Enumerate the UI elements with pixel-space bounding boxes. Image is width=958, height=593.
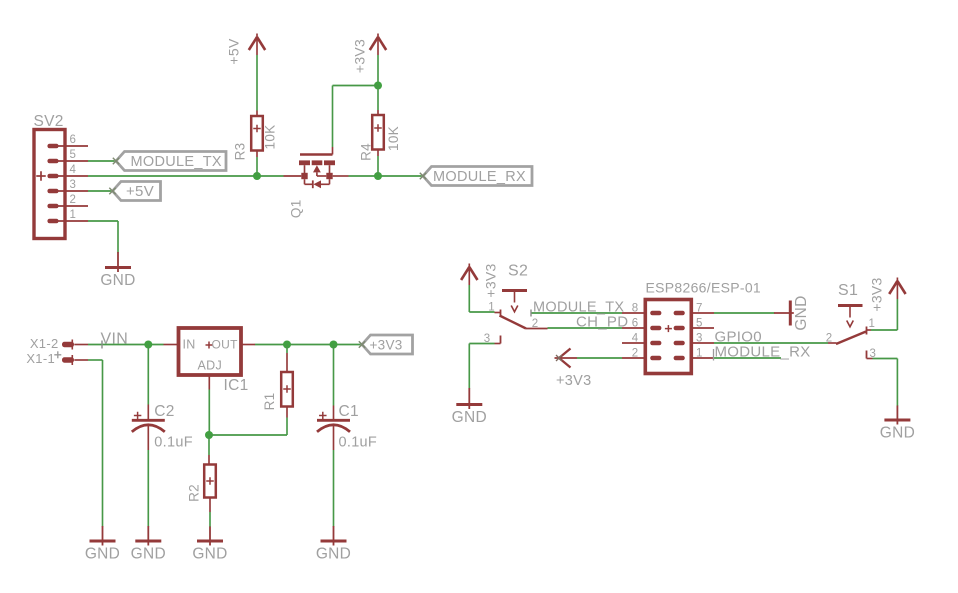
svg-text:+3V3: +3V3	[370, 338, 403, 353]
svg-text:+5V: +5V	[126, 183, 154, 200]
svg-text:+3V3: +3V3	[352, 39, 368, 73]
svg-text:4: 4	[70, 164, 77, 176]
svg-text:MODULE_TX: MODULE_TX	[131, 154, 222, 170]
svg-text:1: 1	[869, 318, 876, 330]
svg-text:C2: C2	[154, 403, 174, 420]
svg-text:GND: GND	[880, 425, 915, 442]
svg-text:GND: GND	[316, 546, 351, 563]
svg-text:2: 2	[826, 333, 833, 345]
svg-text:0.1uF: 0.1uF	[339, 434, 378, 450]
svg-text:GND: GND	[131, 546, 166, 563]
svg-text:+3V3: +3V3	[483, 263, 499, 297]
svg-text:IN: IN	[183, 338, 196, 352]
svg-text:OUT: OUT	[212, 338, 239, 352]
svg-text:1: 1	[70, 209, 77, 221]
svg-text:0.1uF: 0.1uF	[154, 434, 193, 450]
svg-text:3: 3	[484, 333, 491, 345]
svg-text:GND: GND	[192, 546, 227, 563]
svg-text:GND: GND	[793, 295, 810, 330]
svg-text:2: 2	[532, 318, 539, 330]
svg-text:R4: R4	[359, 143, 374, 161]
svg-text:R2: R2	[187, 484, 202, 502]
svg-text:S2: S2	[508, 263, 528, 280]
svg-text:1: 1	[488, 302, 495, 314]
svg-text:MODULE_RX: MODULE_RX	[433, 169, 526, 185]
svg-text:IC1: IC1	[224, 377, 249, 394]
svg-text:C1: C1	[339, 403, 359, 420]
svg-text:R3: R3	[233, 143, 248, 161]
svg-text:GND: GND	[452, 409, 487, 426]
svg-text:X1-2: X1-2	[30, 336, 59, 351]
svg-text:X1-1: X1-1	[26, 351, 55, 366]
svg-text:CH_PD: CH_PD	[576, 314, 628, 331]
svg-text:5: 5	[70, 149, 77, 161]
svg-text:2: 2	[70, 194, 77, 206]
svg-text:3: 3	[70, 179, 77, 191]
svg-text:GND: GND	[100, 272, 135, 289]
svg-text:3: 3	[870, 348, 877, 360]
svg-text:ESP8266/ESP-01: ESP8266/ESP-01	[646, 280, 762, 296]
svg-text:+3V3: +3V3	[556, 373, 591, 389]
svg-text:10K: 10K	[386, 126, 401, 151]
svg-text:MODULE_RX: MODULE_RX	[715, 344, 811, 361]
svg-text:VIN: VIN	[101, 331, 129, 348]
svg-text:+5V: +5V	[226, 38, 242, 65]
svg-text:S1: S1	[838, 282, 858, 299]
svg-text:R1: R1	[262, 393, 277, 411]
svg-text:6: 6	[70, 134, 77, 146]
svg-text:GND: GND	[85, 546, 120, 563]
svg-text:ADJ: ADJ	[198, 359, 223, 373]
svg-text:10K: 10K	[263, 125, 278, 150]
svg-text:+3V3: +3V3	[869, 277, 885, 311]
svg-text:SV2: SV2	[34, 113, 64, 130]
svg-text:Q1: Q1	[288, 199, 303, 218]
